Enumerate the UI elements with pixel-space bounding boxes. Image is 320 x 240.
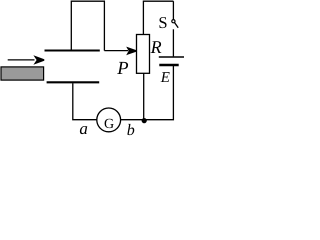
svg-text:R: R: [150, 37, 162, 57]
svg-text:G: G: [104, 117, 114, 132]
svg-text:E: E: [160, 70, 170, 86]
svg-text:a: a: [79, 119, 88, 136]
svg-text:S: S: [158, 13, 167, 32]
svg-text:P: P: [116, 59, 128, 79]
svg-text:b: b: [127, 122, 135, 136]
